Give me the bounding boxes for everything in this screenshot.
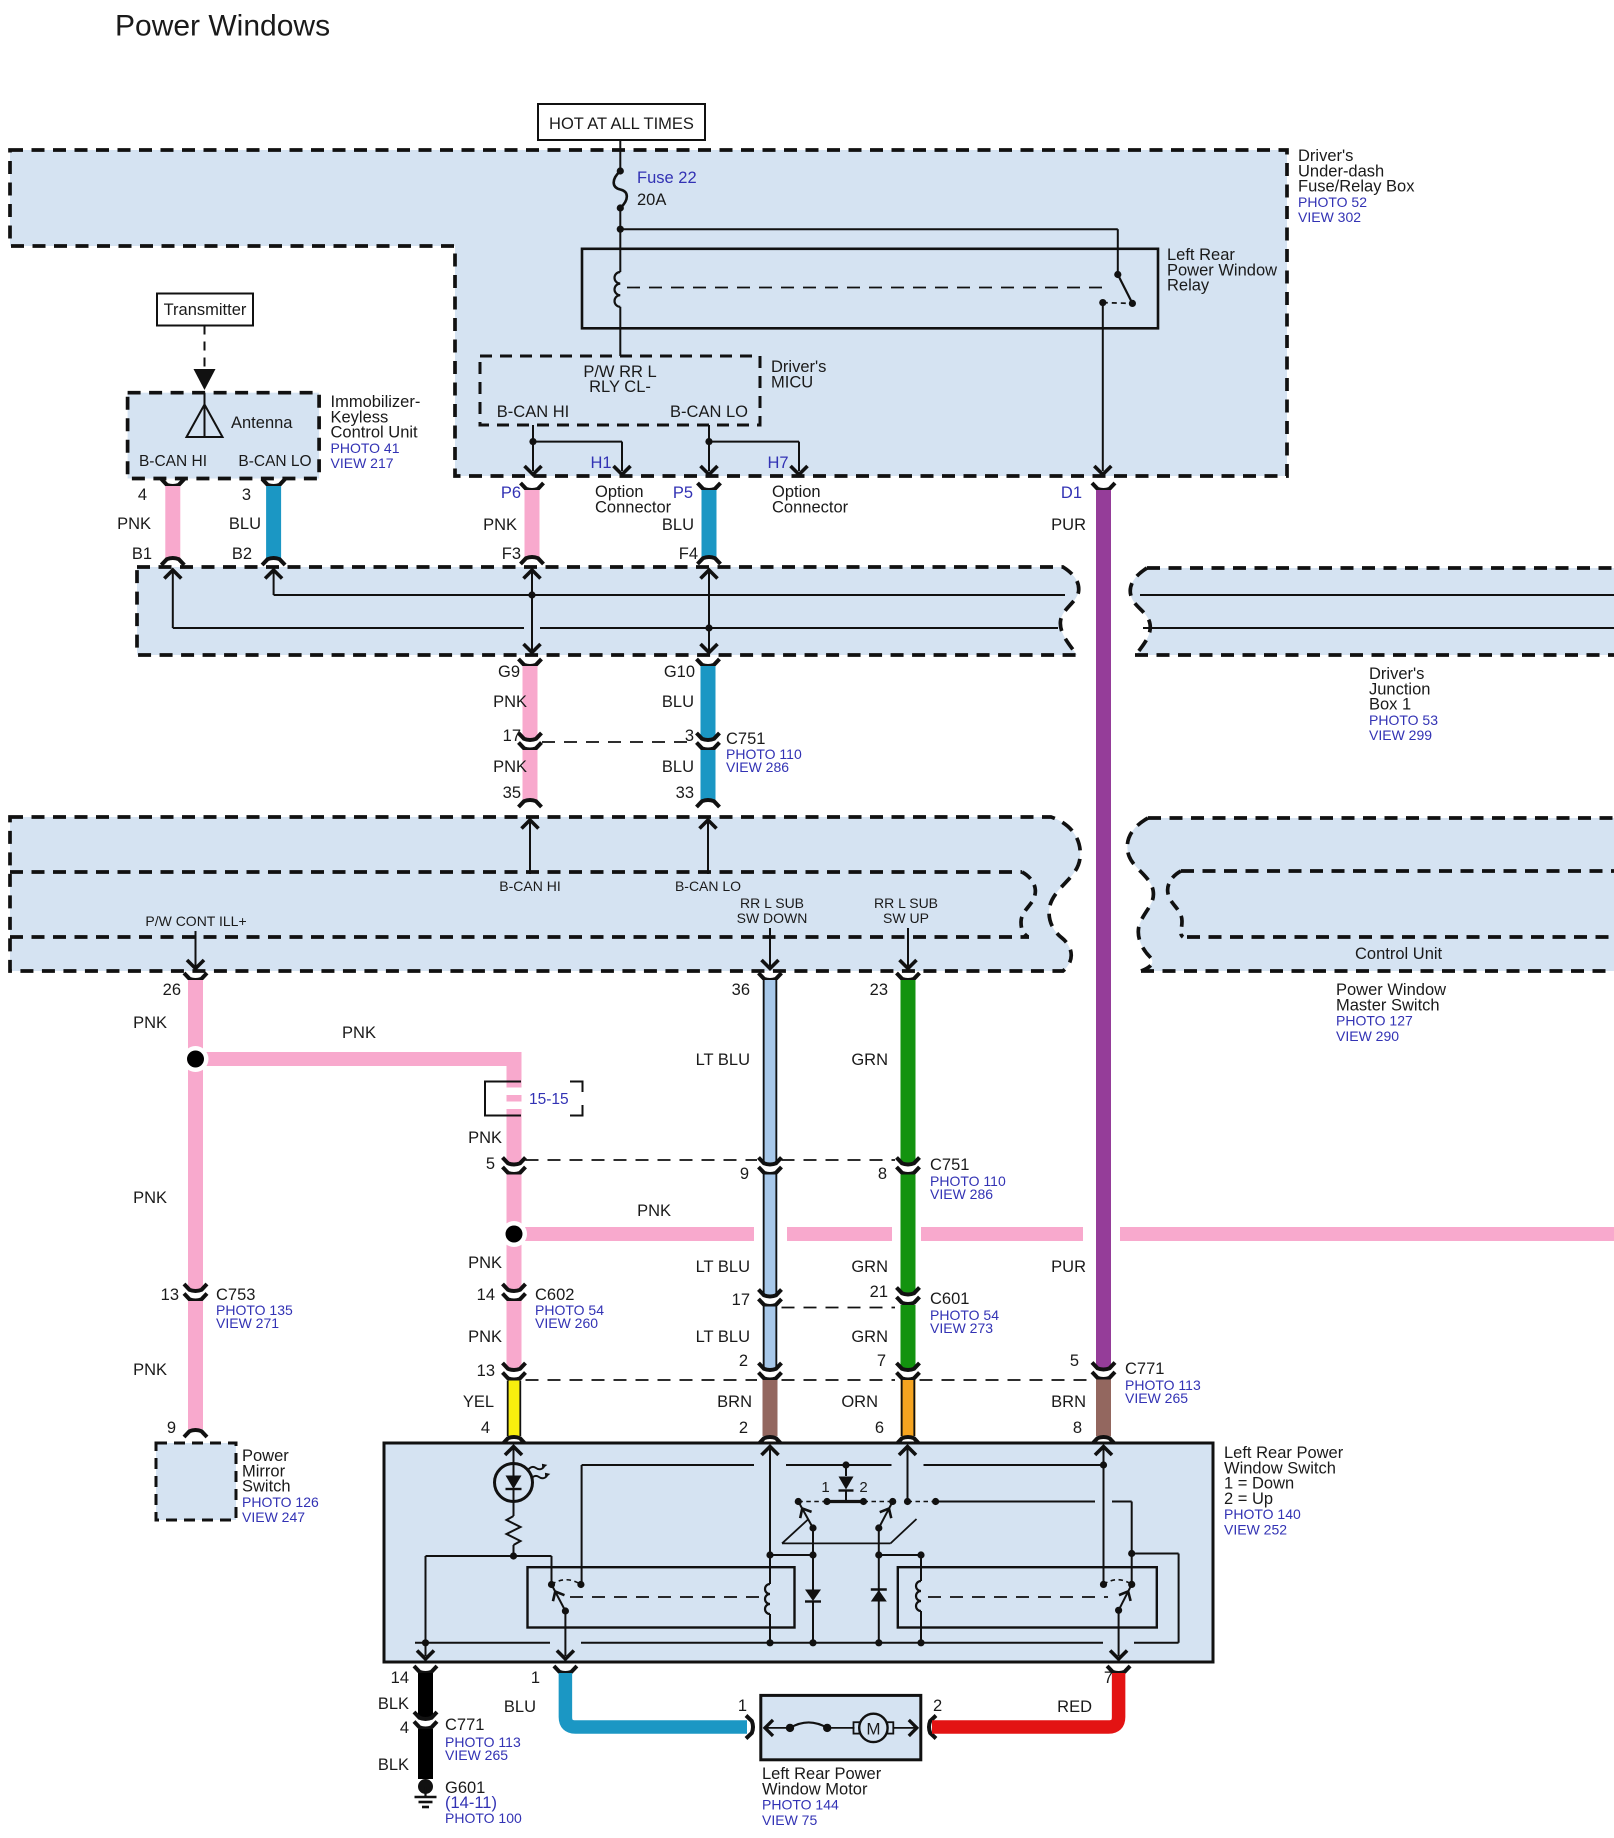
- wire BLU B-CAN LO to B2: [262, 479, 285, 486]
- wire GRN 21 to 7: [901, 1305, 916, 1369]
- wire BLU P5 to F4: [698, 483, 721, 490]
- svg-text:B-CAN LO: B-CAN LO: [670, 403, 748, 421]
- svg-text:Fuse 22: Fuse 22: [637, 169, 697, 187]
- wire pin4 entry arrow: [505, 1447, 522, 1456]
- connector C771 pin 4: [414, 1712, 437, 1719]
- svg-text:3: 3: [242, 486, 251, 504]
- motor internal arrows: [765, 1727, 790, 1729]
- svg-text:8: 8: [878, 1165, 887, 1183]
- svg-text:BLU: BLU: [662, 516, 694, 534]
- wire BRN to switch pin 8: [1096, 1380, 1111, 1437]
- connector C601 pin 21: [897, 1288, 920, 1295]
- svg-text:D1: D1: [1061, 484, 1082, 502]
- inner band right notch: [1168, 871, 1183, 937]
- svg-text:VIEW 286: VIEW 286: [930, 1186, 993, 1202]
- relay contact: [1114, 271, 1121, 278]
- svg-text:P5: P5: [673, 484, 693, 502]
- svg-text:Control Unit: Control Unit: [1355, 945, 1443, 963]
- svg-text:9: 9: [167, 1419, 176, 1437]
- svg-text:B1: B1: [132, 545, 152, 563]
- connector C771 pin 2: [759, 1363, 782, 1370]
- svg-text:C751: C751: [930, 1156, 969, 1174]
- wire BLK pin 14: [414, 1666, 437, 1673]
- wire fuse to relay coil: [619, 208, 621, 272]
- svg-text:LT BLU: LT BLU: [696, 1328, 750, 1346]
- right switch arm: [1119, 1584, 1132, 1610]
- wire BLU pin 1 to motor: [554, 1666, 577, 1673]
- svg-text:GRN: GRN: [851, 1328, 888, 1346]
- svg-text:VIEW 217: VIEW 217: [331, 455, 394, 471]
- svg-text:F4: F4: [679, 545, 698, 563]
- svg-text:35: 35: [503, 784, 521, 802]
- right coil: [916, 1581, 921, 1611]
- svg-text:Control Unit: Control Unit: [331, 424, 419, 442]
- wire LT BLU pin9 to 17: [763, 1175, 778, 1296]
- wire relay contact to D1: [1102, 303, 1104, 471]
- svg-text:21: 21: [870, 1283, 888, 1301]
- svg-text:VIEW 247: VIEW 247: [242, 1509, 305, 1525]
- svg-text:PNK: PNK: [468, 1129, 502, 1147]
- rocker left contact arm: [798, 1502, 813, 1529]
- svg-text:C771: C771: [1125, 1360, 1164, 1378]
- svg-text:PHOTO 100: PHOTO 100: [445, 1810, 522, 1826]
- wire 33 arrow into control unit B-CAN LO: [700, 820, 717, 829]
- wire BRN to switch pin 2: [763, 1380, 778, 1436]
- svg-text:PNK: PNK: [493, 693, 527, 711]
- connector C602 pin 17: [759, 1290, 782, 1297]
- svg-text:B-CAN LO: B-CAN LO: [675, 878, 741, 894]
- box Left Rear Power Window Switch: [384, 1443, 1213, 1662]
- relay Left Rear Power Window Relay: [582, 249, 1158, 328]
- svg-text:PHOTO 41: PHOTO 41: [331, 440, 400, 456]
- svg-text:PNK: PNK: [637, 1202, 671, 1220]
- wire PNK C751 to 35: [523, 750, 538, 800]
- svg-text:GRN: GRN: [851, 1051, 888, 1069]
- svg-text:RED: RED: [1057, 1698, 1092, 1716]
- box Power Mirror Switch: [156, 1443, 236, 1520]
- svg-text:Transmitter: Transmitter: [164, 301, 247, 319]
- wire PNK P6 to F3: [521, 483, 544, 490]
- svg-text:Power Windows: Power Windows: [115, 10, 330, 43]
- svg-text:PNK: PNK: [133, 1361, 167, 1379]
- svg-text:H7: H7: [767, 454, 788, 472]
- svg-text:Switch: Switch: [242, 1478, 291, 1496]
- svg-text:BLU: BLU: [662, 758, 694, 776]
- wire B1 riser in junction box: [164, 570, 181, 579]
- svg-text:H1: H1: [590, 454, 611, 472]
- svg-text:2 = Up: 2 = Up: [1224, 1490, 1273, 1508]
- svg-text:C601: C601: [930, 1290, 969, 1308]
- svg-text:13: 13: [477, 1362, 495, 1380]
- left coil: [765, 1584, 770, 1614]
- svg-text:Antenna: Antenna: [231, 414, 293, 432]
- dashed arrow transmitter to antenna: [204, 326, 206, 369]
- connector C771 pin 7: [897, 1363, 920, 1370]
- svg-text:VIEW 265: VIEW 265: [445, 1747, 508, 1763]
- svg-text:Window Motor: Window Motor: [762, 1780, 868, 1798]
- svg-text:PNK: PNK: [133, 1189, 167, 1207]
- wire B2 riser in junction box: [265, 570, 282, 579]
- svg-text:PHOTO 53: PHOTO 53: [1369, 712, 1438, 728]
- wire relay coil to MICU: [619, 307, 621, 356]
- svg-text:SW UP: SW UP: [883, 910, 929, 926]
- svg-text:B-CAN HI: B-CAN HI: [497, 403, 569, 421]
- right diode: [878, 1555, 880, 1602]
- wire pin6 entry arrow: [899, 1447, 916, 1456]
- wire lamp to switch common: [551, 1556, 553, 1585]
- wire B-CAN LO branch: [708, 425, 710, 442]
- svg-text:YEL: YEL: [463, 1393, 494, 1411]
- connector C751 pin 5: [503, 1158, 526, 1165]
- svg-text:PNK: PNK: [133, 1014, 167, 1032]
- junction row y1555: [766, 1551, 773, 1558]
- svg-text:PNK: PNK: [468, 1254, 502, 1272]
- wire RED motor to pin 7: [1107, 1666, 1130, 1673]
- svg-text:BLU: BLU: [504, 1698, 536, 1716]
- box Driver's Junction Box 1 left segment: [137, 567, 1079, 655]
- svg-text:G9: G9: [498, 663, 520, 681]
- box Left Rear Power Window Motor: [761, 1695, 921, 1759]
- svg-text:VIEW 286: VIEW 286: [726, 759, 789, 775]
- wire PNK C753 to pin 9: [188, 1301, 203, 1429]
- wire LT BLU pin 36 down: [759, 973, 782, 980]
- svg-text:2: 2: [739, 1352, 748, 1370]
- svg-text:B-CAN LO: B-CAN LO: [238, 453, 311, 470]
- inner band left notch: [10, 870, 1022, 874]
- svg-text:BLK: BLK: [378, 1695, 409, 1713]
- svg-text:17: 17: [732, 1291, 750, 1309]
- rocker right contact arm: [879, 1502, 893, 1529]
- rocker dashed links: [798, 1501, 827, 1503]
- svg-text:5: 5: [1070, 1352, 1079, 1370]
- wire from HOT box to fuse: [619, 140, 621, 171]
- svg-text:PHOTO 144: PHOTO 144: [762, 1797, 839, 1813]
- junction dot pink 2: [514, 1227, 754, 1241]
- box Power Window Master Switch outer left: [10, 817, 1080, 971]
- left switch arm: [552, 1585, 566, 1612]
- svg-text:4: 4: [138, 486, 147, 504]
- box Driver's Junction Box 1 right segment: [1130, 568, 1614, 655]
- svg-text:PNK: PNK: [117, 515, 151, 533]
- svg-text:VIEW 75: VIEW 75: [762, 1812, 817, 1828]
- wire bus to left fixed contact: [581, 1465, 583, 1585]
- svg-text:M: M: [866, 1720, 880, 1739]
- svg-text:VIEW 271: VIEW 271: [216, 1315, 279, 1331]
- svg-text:9: 9: [740, 1165, 749, 1183]
- wire PNK C602 to pin 13: [507, 1301, 522, 1369]
- wire PNK vertical x514: [507, 1052, 522, 1164]
- svg-text:RLY CL-: RLY CL-: [589, 378, 651, 396]
- svg-text:23: 23: [870, 981, 888, 999]
- svg-text:3: 3: [685, 727, 694, 745]
- svg-text:Box 1: Box 1: [1369, 696, 1411, 714]
- svg-text:1: 1: [738, 1697, 747, 1715]
- ground G601: [418, 1779, 433, 1794]
- wire GRN pin8 to 21: [901, 1175, 916, 1294]
- svg-text:VIEW 252: VIEW 252: [1224, 1522, 1287, 1538]
- svg-text:ORN: ORN: [841, 1393, 878, 1411]
- svg-text:4: 4: [400, 1719, 409, 1737]
- svg-text:PUR: PUR: [1051, 516, 1086, 534]
- lamp illumination: [495, 1464, 533, 1502]
- box Driver's Under-dash Fuse/Relay Box: [10, 150, 1287, 476]
- svg-text:14: 14: [391, 1669, 409, 1687]
- svg-text:BRN: BRN: [717, 1393, 752, 1411]
- box Immobilizer-Keyless Control Unit: [128, 393, 320, 479]
- wire pin2 entry arrow: [762, 1447, 779, 1456]
- wire ORN to switch pin 6: [901, 1380, 916, 1436]
- svg-text:SW DOWN: SW DOWN: [737, 910, 808, 926]
- resistor: [513, 1502, 515, 1517]
- svg-text:2: 2: [933, 1697, 942, 1715]
- wire right switch to pin 7: [1118, 1610, 1120, 1656]
- grid ref 15-15: [485, 1082, 521, 1116]
- wire LT BLU 17 to 2: [763, 1307, 778, 1370]
- svg-text:PHOTO 52: PHOTO 52: [1298, 194, 1367, 210]
- motor M symbol: [854, 1722, 860, 1733]
- wire BLU G10 upper: [697, 659, 720, 666]
- svg-text:P6: P6: [501, 484, 521, 502]
- wire F3 through junction box: [524, 570, 541, 579]
- connector motor pin 1: [746, 1716, 753, 1739]
- svg-text:BRN: BRN: [1051, 1393, 1086, 1411]
- svg-text:1: 1: [821, 1479, 829, 1496]
- wire GRN pin 23 down: [897, 973, 920, 980]
- svg-text:HOT AT ALL TIMES: HOT AT ALL TIMES: [549, 115, 694, 133]
- fuse Fuse 22 20A: [617, 167, 624, 174]
- svg-text:Fuse/Relay Box: Fuse/Relay Box: [1298, 178, 1415, 196]
- wire junction box right segment horizontals: [1140, 594, 1614, 596]
- connector C751 pin 8: [897, 1158, 920, 1165]
- wire 35 arrow into control unit B-CAN HI: [522, 820, 539, 829]
- svg-text:Connector: Connector: [595, 498, 672, 516]
- svg-text:RR L SUB: RR L SUB: [874, 895, 938, 911]
- svg-text:14: 14: [477, 1286, 495, 1304]
- box right relay coil inner: [898, 1567, 1157, 1627]
- connector C751 pins 17-35: [519, 733, 542, 740]
- svg-text:P/W CONT ILL+: P/W CONT ILL+: [145, 913, 246, 929]
- rocker linkage: [782, 1542, 891, 1544]
- svg-text:33: 33: [676, 784, 694, 802]
- wire YEL pin 4: [508, 1381, 521, 1437]
- svg-text:BLU: BLU: [229, 515, 261, 533]
- relay coil: [615, 272, 621, 307]
- junction dot pink: [196, 1052, 515, 1066]
- rocker bar: [827, 1500, 864, 1503]
- connector motor pin 2: [929, 1716, 936, 1739]
- wire lamp to ground leg: [426, 1555, 552, 1557]
- svg-text:PHOTO 126: PHOTO 126: [242, 1494, 319, 1510]
- antenna symbol: [204, 393, 206, 437]
- svg-text:VIEW 302: VIEW 302: [1298, 209, 1361, 225]
- wire PNK pin5 to junction: [507, 1175, 522, 1235]
- svg-text:Relay: Relay: [1167, 277, 1210, 295]
- connector C602: [503, 1284, 526, 1291]
- right inner dashed link: [928, 1596, 1108, 1598]
- svg-text:36: 36: [732, 981, 750, 999]
- connector C751 pin 9: [759, 1158, 782, 1165]
- svg-text:B-CAN HI: B-CAN HI: [139, 453, 207, 470]
- svg-text:PHOTO 140: PHOTO 140: [1224, 1506, 1301, 1522]
- svg-text:VIEW 273: VIEW 273: [930, 1320, 993, 1336]
- svg-text:5: 5: [486, 1155, 495, 1173]
- svg-text:VIEW 265: VIEW 265: [1125, 1390, 1188, 1406]
- wire PNK G9 upper: [519, 659, 542, 666]
- wire pin8 entry arrow: [1095, 1447, 1112, 1456]
- left inner dashed link: [570, 1596, 760, 1598]
- svg-text:B2: B2: [232, 545, 252, 563]
- svg-text:PNK: PNK: [468, 1328, 502, 1346]
- svg-text:VIEW 290: VIEW 290: [1336, 1028, 1399, 1044]
- connector C771 pin 5: [1092, 1363, 1115, 1370]
- wire BLU C751 to 33: [701, 750, 716, 800]
- box left relay coil inner: [528, 1567, 795, 1627]
- label HOT AT ALL TIMES: [538, 104, 705, 140]
- svg-text:4: 4: [481, 1419, 490, 1437]
- svg-text:VIEW 260: VIEW 260: [535, 1315, 598, 1331]
- wire right rocker output: [936, 1501, 1095, 1503]
- svg-text:B-CAN HI: B-CAN HI: [499, 878, 560, 894]
- svg-text:PNK: PNK: [483, 516, 517, 534]
- connector C753: [184, 1284, 207, 1291]
- svg-text:F3: F3: [502, 545, 521, 563]
- wire BLK to ground: [418, 1729, 433, 1779]
- svg-text:MICU: MICU: [771, 373, 813, 391]
- left diode: [812, 1555, 814, 1590]
- wire PUR D1 down to C771: [1092, 483, 1115, 490]
- svg-text:26: 26: [163, 981, 181, 999]
- wire fuse junction to relay contact: [620, 228, 1118, 230]
- box Transmitter: [157, 294, 253, 326]
- wire B-CAN HI branch: [532, 425, 534, 442]
- rocker common feed: [845, 1465, 847, 1476]
- svg-text:6: 6: [875, 1419, 884, 1437]
- wire ground leg arrow: [425, 1643, 427, 1656]
- wire PNK pin 26 down: [184, 973, 207, 980]
- right switch contacts: [1104, 1580, 1132, 1585]
- svg-text:Master Switch: Master Switch: [1336, 996, 1440, 1014]
- svg-text:BLK: BLK: [378, 1756, 409, 1774]
- wire internal bottom bus: [415, 1642, 550, 1644]
- left switch common: [548, 1581, 555, 1588]
- svg-text:15-15: 15-15: [529, 1091, 569, 1108]
- svg-text:GRN: GRN: [851, 1258, 888, 1276]
- svg-text:17: 17: [503, 727, 521, 745]
- svg-text:Connector: Connector: [772, 498, 849, 516]
- svg-text:C771: C771: [445, 1716, 484, 1734]
- wire left switch to pin 1: [564, 1611, 566, 1656]
- svg-text:2: 2: [859, 1479, 867, 1496]
- svg-text:7: 7: [877, 1352, 886, 1370]
- svg-text:PHOTO 127: PHOTO 127: [1336, 1013, 1413, 1029]
- wire internal top bus: [582, 1464, 754, 1466]
- motor brush arc: [786, 1724, 794, 1732]
- svg-text:PNK: PNK: [342, 1024, 376, 1042]
- svg-text:8: 8: [1073, 1419, 1082, 1437]
- svg-text:BLU: BLU: [662, 693, 694, 711]
- svg-text:PUR: PUR: [1051, 1258, 1086, 1276]
- box Driver's MICU: [480, 356, 760, 425]
- box Control Unit right segment: [1127, 818, 1614, 971]
- relay link dashed: [627, 287, 1108, 289]
- svg-text:20A: 20A: [637, 191, 666, 209]
- svg-text:13: 13: [161, 1286, 179, 1304]
- svg-text:RR L SUB: RR L SUB: [740, 895, 804, 911]
- connector pin13 to YEL: [503, 1363, 526, 1370]
- wire PNK B-CAN HI to B1: [161, 479, 184, 486]
- svg-text:LT BLU: LT BLU: [696, 1051, 750, 1069]
- svg-text:LT BLU: LT BLU: [696, 1258, 750, 1276]
- connector C751 pins 3-33: [697, 733, 720, 740]
- svg-text:1: 1: [531, 1669, 540, 1687]
- lamp rays: [528, 1467, 544, 1470]
- svg-text:VIEW 299: VIEW 299: [1369, 727, 1432, 743]
- wire PNK junction to pin 14: [507, 1234, 522, 1290]
- svg-text:G10: G10: [664, 663, 695, 681]
- svg-text:PNK: PNK: [493, 758, 527, 776]
- wire F4 through junction box: [701, 570, 718, 579]
- svg-text:2: 2: [739, 1419, 748, 1437]
